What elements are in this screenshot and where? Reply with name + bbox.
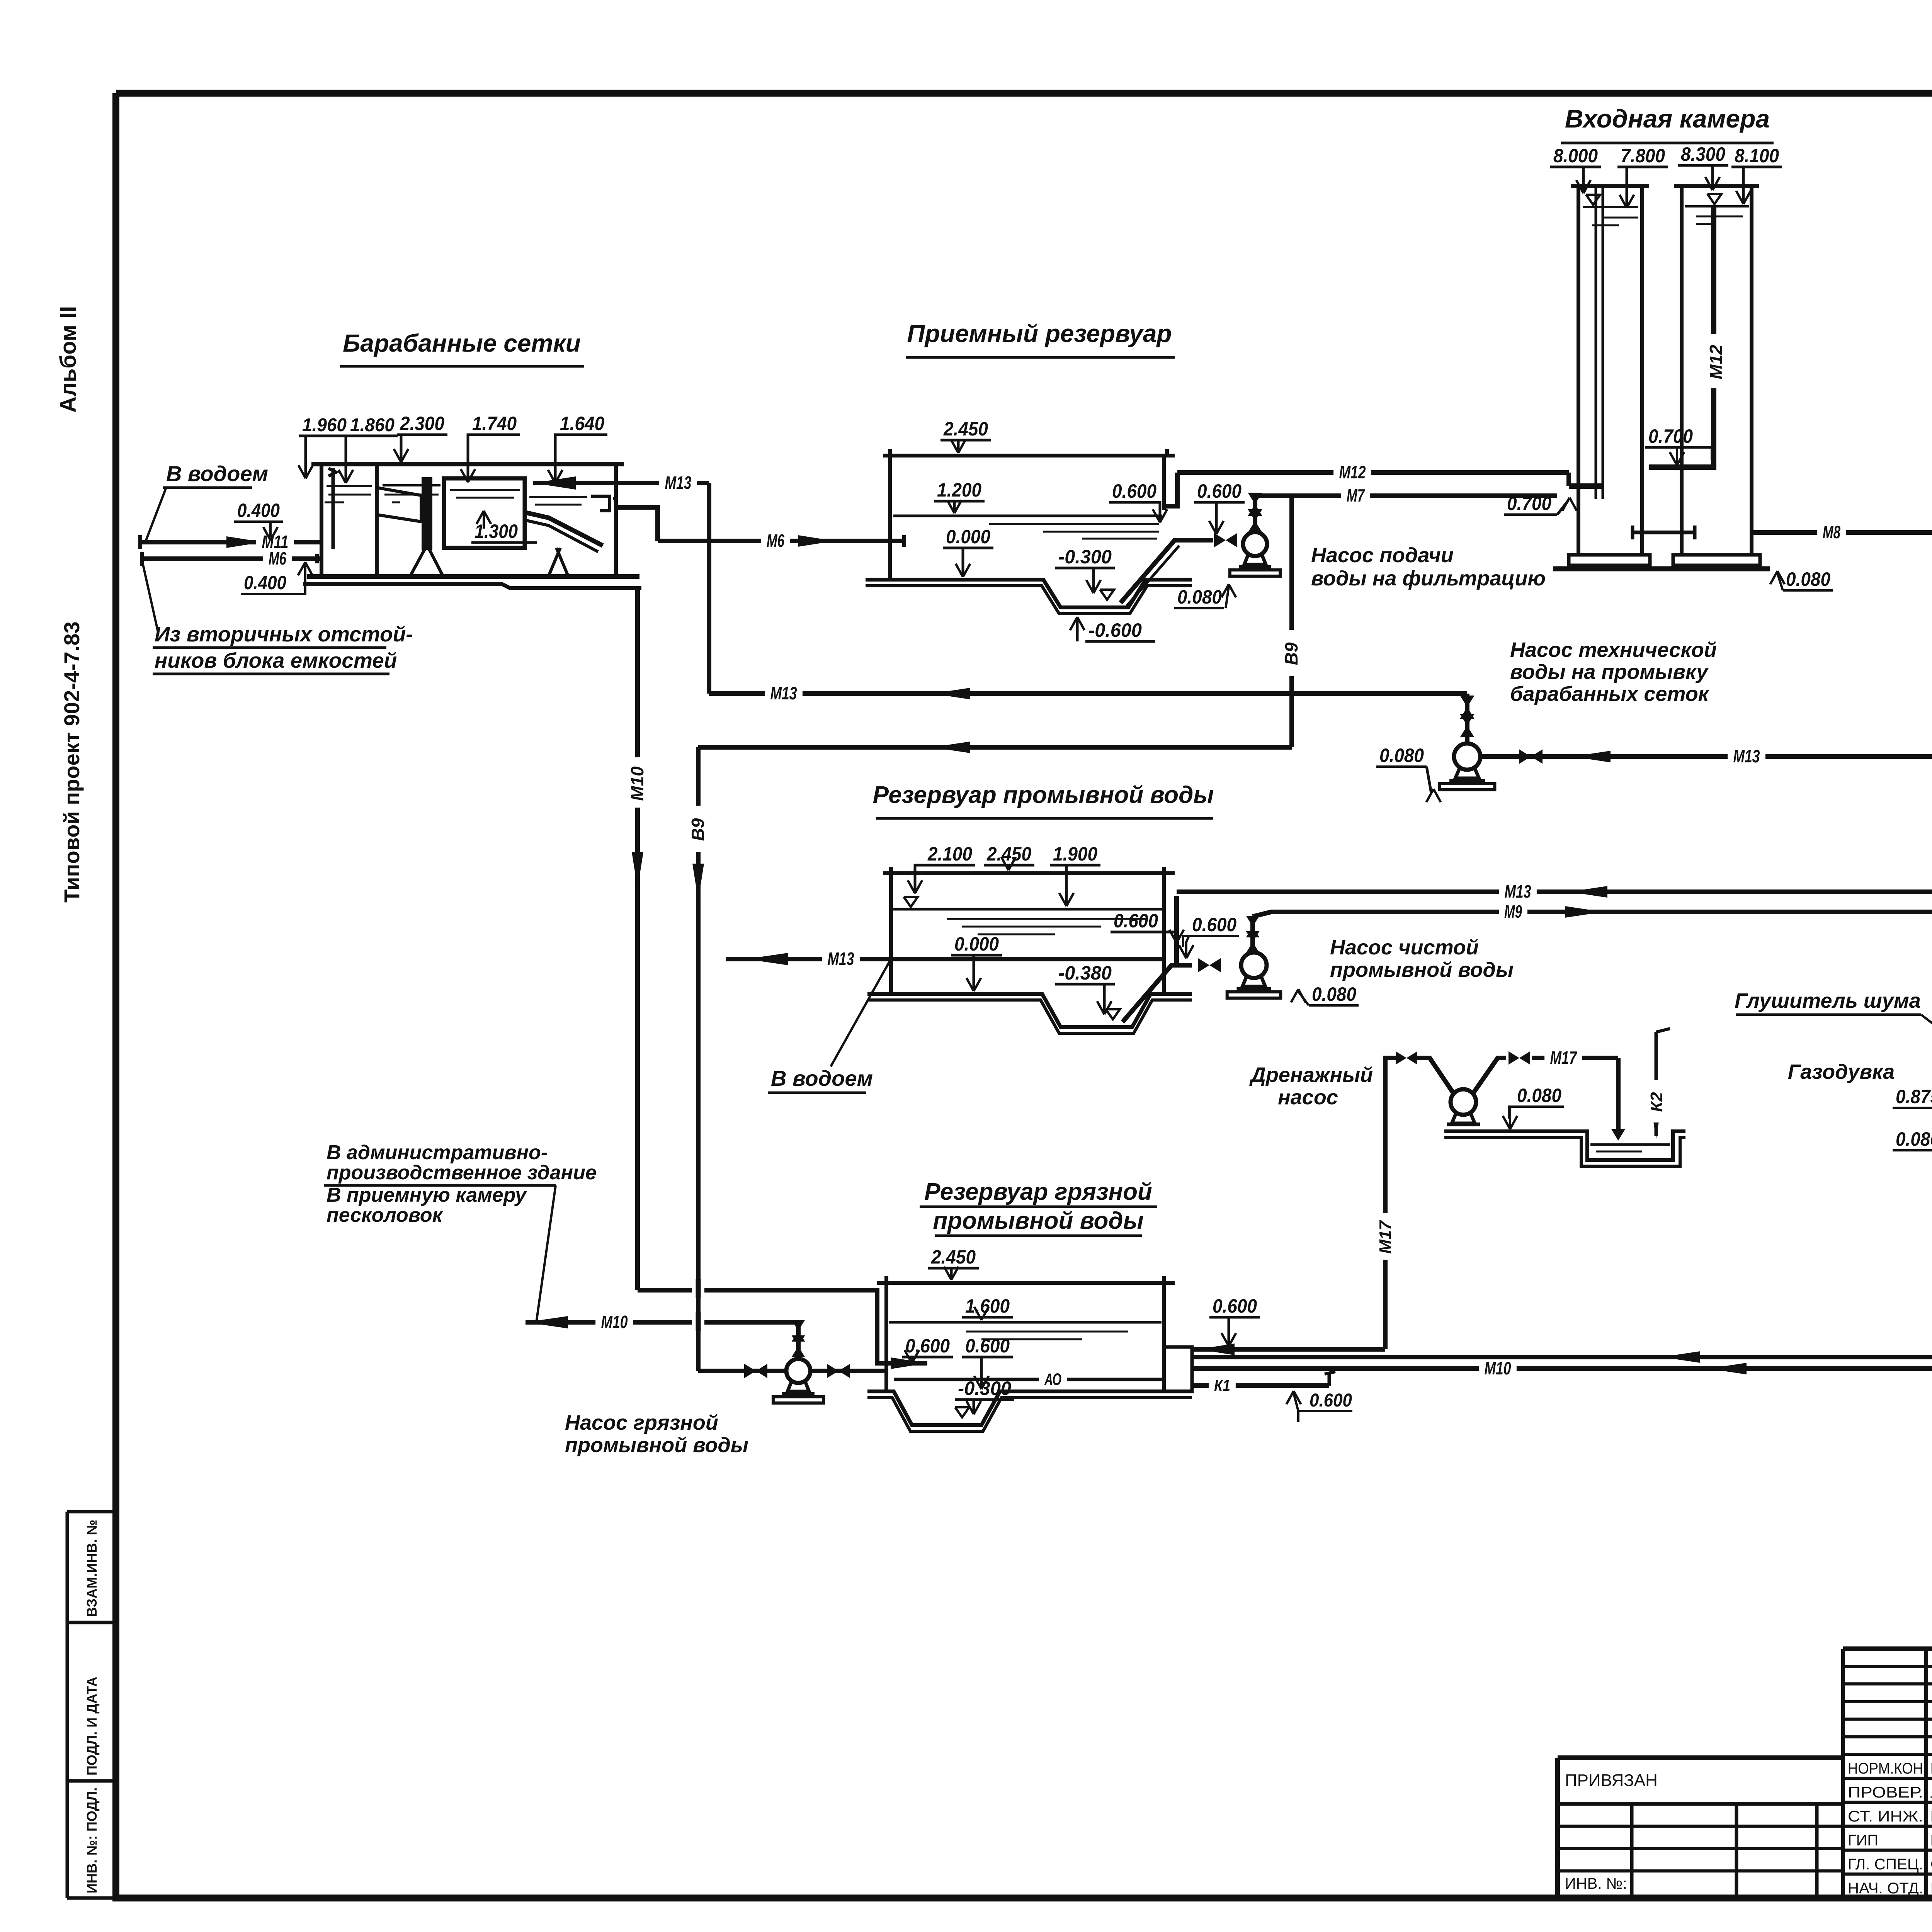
svg-text:2.450: 2.450 (931, 1246, 976, 1268)
В9 riser from М7 line down (1289, 496, 1294, 747)
АО air line to dirty tank (1192, 1355, 1932, 1359)
receiving tank floor with sump (866, 580, 1192, 607)
svg-text:Насос технической: Насос технической (1510, 638, 1717, 662)
column 2 cap line (1674, 184, 1759, 188)
wash tank walls (889, 873, 893, 994)
pipe М12 to input chamber (1177, 470, 1569, 475)
svg-text:1.600: 1.600 (965, 1295, 1010, 1317)
М10 return from filter to dirty tank (1192, 1366, 1932, 1371)
svg-text:0.600: 0.600 (905, 1335, 950, 1357)
drain pump (1451, 1089, 1476, 1115)
svg-text:барабанных сеток: барабанных сеток (1510, 682, 1710, 706)
svg-text:1.860: 1.860 (350, 415, 395, 435)
svg-text:Дренажный: Дренажный (1249, 1063, 1373, 1087)
tech pump suction М13 from filter riser (1481, 754, 1932, 759)
svg-text:2.100: 2.100 (927, 843, 972, 865)
svg-text:М13: М13 (665, 473, 692, 493)
cross tie between columns (1633, 531, 1695, 534)
crossing gaps (pipe underpass breaks) (692, 1286, 704, 1295)
svg-text:Типовой проект 902-4-7.83: Типовой проект 902-4-7.83 (60, 621, 84, 903)
svg-text:М13: М13 (770, 683, 797, 703)
dirty pump suction from tank (698, 1369, 886, 1373)
svg-text:воды на промывку: воды на промывку (1510, 660, 1709, 684)
svg-text:ЛУЩИХИНА: ЛУЩИХИНА (1930, 1784, 1932, 1801)
sump water triangle (1106, 1009, 1120, 1019)
sump water level (1590, 1143, 1670, 1146)
inlet weir plate left (328, 468, 336, 476)
svg-text:1.300: 1.300 (474, 520, 518, 542)
М13 vertical drop to tech pump line (707, 483, 711, 694)
outlet weir box right (591, 496, 610, 511)
М9 backwash line to filter (1253, 912, 1271, 917)
М10 inlet from drum screens (left inlet) (638, 1290, 927, 1363)
svg-text:Из вторичных отстой-: Из вторичных отстой- (155, 622, 413, 646)
svg-text:Приемный резервуар: Приемный резервуар (907, 320, 1172, 347)
svg-text:8.100: 8.100 (1735, 145, 1779, 167)
column 1 inner drop pipe (1595, 186, 1597, 499)
svg-text:промывной воды: промывной воды (565, 1434, 748, 1457)
АО distribution inside dirty tank (894, 1378, 1164, 1381)
wash tank floor with sump (867, 994, 1192, 1027)
pipe М8 from chamber to filter riser (1752, 530, 1932, 535)
М13 return line from filter (1177, 889, 1932, 894)
svg-text:М13: М13 (828, 949, 854, 969)
М10 vertical from drum screens down (635, 588, 640, 1290)
svg-text:1.640: 1.640 (560, 413, 604, 434)
svg-text:ПРИВЯЗАН: ПРИВЯЗАН (1565, 1771, 1658, 1790)
svg-text:воды на фильтрацию: воды на фильтрацию (1311, 567, 1546, 590)
svg-text:М17: М17 (1550, 1048, 1578, 1068)
column 1 walls (1577, 186, 1580, 555)
receiving tank right wall (1162, 456, 1166, 510)
svg-text:Резервуар промывной воды: Резервуар промывной воды (873, 782, 1214, 808)
water level hatches left compartment (327, 485, 372, 487)
label В водоем lower (831, 960, 890, 1066)
svg-text:насос: насос (1278, 1086, 1338, 1109)
tank outlet riser to М12 (1164, 473, 1177, 506)
svg-text:0.080: 0.080 (1896, 1128, 1932, 1150)
stamp: signature table grid (1843, 1647, 1932, 1650)
svg-text:2.450: 2.450 (943, 418, 988, 440)
column 2 inner М12 pipe (1649, 207, 1714, 467)
svg-text:Резервуар грязной: Резервуар грязной (924, 1179, 1152, 1205)
drum screens header line (311, 462, 624, 466)
svg-text:Входная камера: Входная камера (1565, 104, 1770, 133)
svg-text:1.960: 1.960 (302, 415, 347, 435)
svg-text:М6: М6 (767, 531, 784, 551)
svg-text:ников блока емкостей: ников блока емкостей (155, 648, 397, 672)
svg-text:Газодувка: Газодувка (1788, 1060, 1895, 1083)
receiving tank top line (883, 454, 1175, 457)
svg-text:ГОЛЬДМАН: ГОЛЬДМАН (1930, 1880, 1932, 1897)
svg-text:АО: АО (1044, 1370, 1061, 1389)
column 1 water triangle and level (1586, 195, 1600, 205)
wash pump suction valve (1198, 958, 1209, 972)
В9 vertical down to dirty pump suction (696, 747, 701, 1371)
svg-text:МАШНИНОВА: МАШНИНОВА (1930, 1808, 1932, 1825)
svg-text:0.080: 0.080 (1517, 1085, 1561, 1106)
pipe М6 inlet from clarifiers (142, 556, 321, 561)
svg-text:М9: М9 (1504, 901, 1522, 922)
svg-text:М13: М13 (1505, 881, 1531, 901)
svg-text:0.080: 0.080 (1312, 983, 1356, 1005)
dirty tank top line (877, 1281, 1175, 1285)
bottom-left margin boxes (67, 1510, 116, 1514)
svg-text:0.700: 0.700 (1507, 493, 1551, 514)
svg-text:0.000: 0.000 (946, 526, 990, 548)
suction valve (1214, 533, 1226, 547)
dirty tank right inlet box (1164, 1347, 1192, 1391)
tech pump (1454, 743, 1480, 770)
drain pump discharge piping (1473, 1058, 1506, 1094)
svg-text:0.600: 0.600 (1197, 480, 1242, 502)
svg-text:В водоем: В водоем (771, 1066, 873, 1090)
stamp: main right section grid (1843, 1646, 1932, 1651)
receiving tank water level 1.200 (893, 515, 1162, 517)
stamp: Привязан block (1558, 1755, 1843, 1760)
В9 horizontal to left (698, 745, 1292, 750)
svg-text:ПРОВЕР.: ПРОВЕР. (1848, 1784, 1923, 1801)
water level middle compartment (383, 484, 440, 486)
dirty wash pump (786, 1359, 810, 1383)
svg-text:0.700: 0.700 (1648, 425, 1693, 447)
discharge drop into sump (1616, 1058, 1621, 1132)
М17 drain inlet line (1192, 1347, 1385, 1352)
svg-text:К1: К1 (1214, 1376, 1230, 1395)
ground line under columns (1553, 566, 1770, 571)
svg-text:производственное здание: производственное здание (327, 1162, 597, 1184)
svg-text:0.080: 0.080 (1786, 568, 1830, 590)
dirty tank floor and sump (867, 1391, 1192, 1425)
svg-text:0.600: 0.600 (1310, 1390, 1352, 1411)
dirty tank walls (884, 1283, 888, 1391)
svg-text:песколовок: песколовок (327, 1204, 444, 1226)
clean wash pump valve stack (1250, 917, 1255, 952)
svg-text:НОРМ.КОН: НОРМ.КОН (1848, 1760, 1923, 1777)
svg-text:1.900: 1.900 (1053, 843, 1097, 865)
М6 outlet elbow from drum screens (616, 507, 658, 541)
pipe М11 to water body (140, 540, 321, 544)
chute support leg (556, 548, 568, 576)
drum box (444, 478, 525, 548)
svg-text:НАЧ. ОТД.: НАЧ. ОТД. (1848, 1880, 1923, 1897)
svg-text:0.400: 0.400 (244, 572, 286, 594)
К1 outlet stub (1192, 1383, 1329, 1388)
М10 discharge to admin building (526, 1320, 798, 1325)
svg-text:М8: М8 (1823, 522, 1840, 542)
clean wash pump (1241, 952, 1267, 978)
svg-text:СТ. ИНЖ.: СТ. ИНЖ. (1848, 1808, 1923, 1825)
svg-text:промывной воды: промывной воды (933, 1207, 1143, 1234)
svg-text:БОНДАРЕНКО: БОНДАРЕНКО (1930, 1760, 1932, 1777)
svg-text:ГИП: ГИП (1848, 1832, 1878, 1849)
tech pump valve stack (1465, 694, 1469, 743)
column 1 cap line (1571, 184, 1649, 188)
svg-text:В9: В9 (688, 818, 708, 841)
svg-text:М7: М7 (1347, 485, 1365, 505)
svg-text:0.600: 0.600 (965, 1335, 1010, 1357)
svg-text:СИРОТА: СИРОТА (1930, 1856, 1932, 1873)
svg-text:0.080: 0.080 (1177, 586, 1222, 608)
svg-text:М10: М10 (601, 1312, 628, 1332)
svg-text:ИНВ. №:: ИНВ. №: (1565, 1875, 1627, 1892)
М13 discharge to water body (726, 957, 1164, 961)
drain pump suction piping (1417, 1058, 1454, 1094)
svg-text:0.400: 0.400 (237, 500, 280, 521)
svg-text:0.600: 0.600 (1192, 914, 1236, 935)
suction pipe from sump to pump (1121, 540, 1213, 603)
dirty pump discharge stack (796, 1322, 801, 1359)
svg-text:1.740: 1.740 (472, 413, 517, 434)
wash tank top line (883, 871, 1175, 875)
svg-text:8.300: 8.300 (1681, 143, 1725, 165)
dirty tank water level 1.600 (889, 1321, 1162, 1324)
svg-text:М13: М13 (1733, 746, 1760, 766)
sump water mark triangle (1100, 590, 1114, 600)
right compartment water level (529, 496, 587, 498)
svg-text:Насос подачи: Насос подачи (1311, 544, 1454, 567)
svg-text:1.200: 1.200 (937, 479, 981, 501)
svg-text:В административно-: В административно- (327, 1141, 548, 1164)
svg-text:-0.300: -0.300 (1058, 546, 1112, 568)
svg-text:М10: М10 (627, 766, 647, 801)
svg-text:Альбом II: Альбом II (56, 306, 81, 413)
svg-text:8.000: 8.000 (1553, 145, 1598, 167)
М13 return riser into tank (1174, 896, 1179, 965)
svg-text:В приемную камеру: В приемную камеру (327, 1184, 527, 1206)
suction diagonal in wash tank (1122, 965, 1192, 1022)
svg-text:М10: М10 (1485, 1358, 1511, 1378)
feed channel taper lines (377, 488, 421, 522)
svg-text:М12: М12 (1339, 462, 1366, 482)
svg-text:В водоем: В водоем (166, 461, 268, 486)
svg-text:ИНВ. №: ПОДЛ.: ИНВ. №: ПОДЛ. (84, 1787, 100, 1893)
discharge chute diagonal (525, 512, 603, 546)
svg-text:2.300: 2.300 (400, 413, 444, 434)
svg-text:промывной воды: промывной воды (1330, 958, 1514, 981)
svg-text:0.875: 0.875 (1896, 1086, 1932, 1107)
pump discharge valve stack (1253, 496, 1257, 532)
М13 tech-water line from drum riser to tech pump (709, 691, 1467, 696)
svg-text:2.450: 2.450 (986, 843, 1031, 865)
svg-text:0.600: 0.600 (1213, 1295, 1257, 1317)
svg-text:Насос грязной: Насос грязной (565, 1411, 718, 1434)
svg-text:ВЗАМ.ИНВ. №: ВЗАМ.ИНВ. № (84, 1520, 100, 1617)
pump: Насос подачи воды на фильтрацию (1243, 532, 1267, 556)
pipe М7 to input chamber (1255, 493, 1557, 498)
sump water triangle dirty (955, 1407, 969, 1417)
svg-text:М6: М6 (269, 548, 286, 568)
column 2 walls (1680, 186, 1684, 555)
svg-text:ПОДЛ. И ДАТА: ПОДЛ. И ДАТА (84, 1677, 100, 1776)
svg-text:К2: К2 (1647, 1092, 1666, 1112)
svg-text:В9: В9 (1281, 642, 1301, 665)
drum water level (450, 489, 520, 491)
svg-text:7.800: 7.800 (1621, 145, 1665, 167)
svg-text:Глушитель шума: Глушитель шума (1735, 989, 1921, 1012)
svg-text:-0.380: -0.380 (1058, 962, 1112, 984)
svg-text:0.080: 0.080 (1379, 745, 1424, 766)
svg-text:0.600: 0.600 (1114, 910, 1158, 932)
column bases (1569, 555, 1650, 565)
drum drive shaft (dark vertical) (423, 478, 431, 549)
drum screens base slab (307, 574, 639, 579)
drum support legs (410, 549, 425, 576)
svg-text:БОНДАРЕНКО: БОНДАРЕНКО (1930, 1832, 1932, 1849)
svg-text:Насос чистой: Насос чистой (1330, 936, 1479, 959)
svg-text:0.000: 0.000 (954, 933, 999, 955)
column 2 water triangle and level (1708, 194, 1721, 204)
drum screens outer walls (320, 464, 323, 576)
svg-text:М17: М17 (1376, 1220, 1395, 1254)
drain sump platform (1444, 1131, 1685, 1160)
К2 drain arrow line (1655, 1032, 1658, 1136)
wash pipe М13 into drum screens (533, 481, 709, 485)
svg-text:-0.600: -0.600 (1088, 619, 1142, 641)
svg-text:Барабанные сетки: Барабанные сетки (343, 329, 581, 357)
svg-text:0.600: 0.600 (1112, 480, 1156, 502)
svg-text:М12: М12 (1706, 345, 1726, 379)
pipe М6 to receiving tank (658, 539, 904, 543)
svg-text:ГЛ. СПЕЦ.: ГЛ. СПЕЦ. (1848, 1856, 1923, 1873)
receiving tank left wall (888, 456, 892, 580)
wash tank water level (893, 908, 1162, 911)
